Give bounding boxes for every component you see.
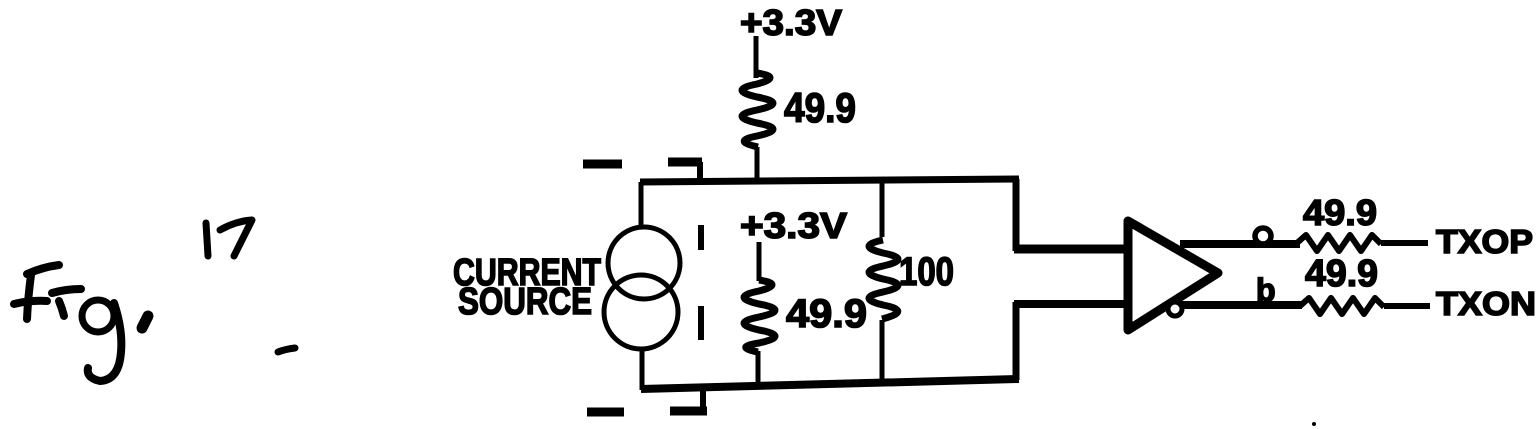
wire from +3.3V to R1 — [754, 36, 759, 78]
wire box right edge lower — [1013, 302, 1020, 380]
svg-text:+3.3V: +3.3V — [740, 205, 847, 246]
svg-text:49.9: 49.9 — [786, 292, 867, 336]
wire top to R3 — [880, 181, 885, 237]
wire current source to box bottom — [640, 348, 645, 390]
wire R2 to box bottom — [756, 351, 761, 386]
wire buffer output top — [1180, 240, 1300, 248]
wire top rail into buffer — [1014, 245, 1135, 254]
resistor R3 100 — [869, 240, 898, 319]
resistor R2 49.9 (inside box) — [744, 280, 775, 352]
svg-text:49.9: 49.9 — [1305, 253, 1378, 295]
inversion bubble — [1168, 302, 1182, 316]
wire bottom rail into buffer — [1014, 300, 1135, 308]
wire box bottom rail — [641, 379, 1019, 389]
op-amp buffer U1 — [1128, 221, 1218, 330]
current source symbol (two circles) — [608, 227, 680, 299]
svg-text:b: b — [1256, 272, 1276, 308]
dashed outline around current source — [583, 162, 707, 412]
wire box top rail — [640, 179, 1019, 182]
wire +3.3V to R2 — [757, 242, 762, 281]
svg-text:SOURCE: SOURCE — [458, 281, 592, 323]
wire R3 to box bottom — [880, 320, 885, 383]
wire left branch to current source — [639, 182, 644, 228]
wire R4 to TXOP — [1381, 240, 1428, 246]
figure label Fig. — [14, 265, 148, 381]
wire R1 to box top — [755, 147, 760, 182]
svg-text:TXON: TXON — [1436, 285, 1536, 322]
stray mark — [1312, 422, 1316, 426]
figure number 17 — [206, 220, 295, 352]
svg-text:100: 100 — [899, 250, 954, 294]
svg-text:49.9: 49.9 — [784, 84, 856, 131]
wire R5 to TXON — [1384, 303, 1430, 309]
wire buffer output bottom — [1180, 301, 1302, 309]
svg-text:49.9: 49.9 — [1303, 192, 1377, 233]
node a — [1255, 228, 1271, 244]
svg-text:TXOP: TXOP — [1436, 223, 1533, 260]
resistor R1 49.9 (top) — [742, 73, 773, 147]
resistor R4 49.9 (to TXOP) — [1297, 235, 1381, 251]
wire box right edge upper — [1013, 179, 1020, 251]
resistor R5 49.9 (to TXON) — [1300, 298, 1384, 314]
